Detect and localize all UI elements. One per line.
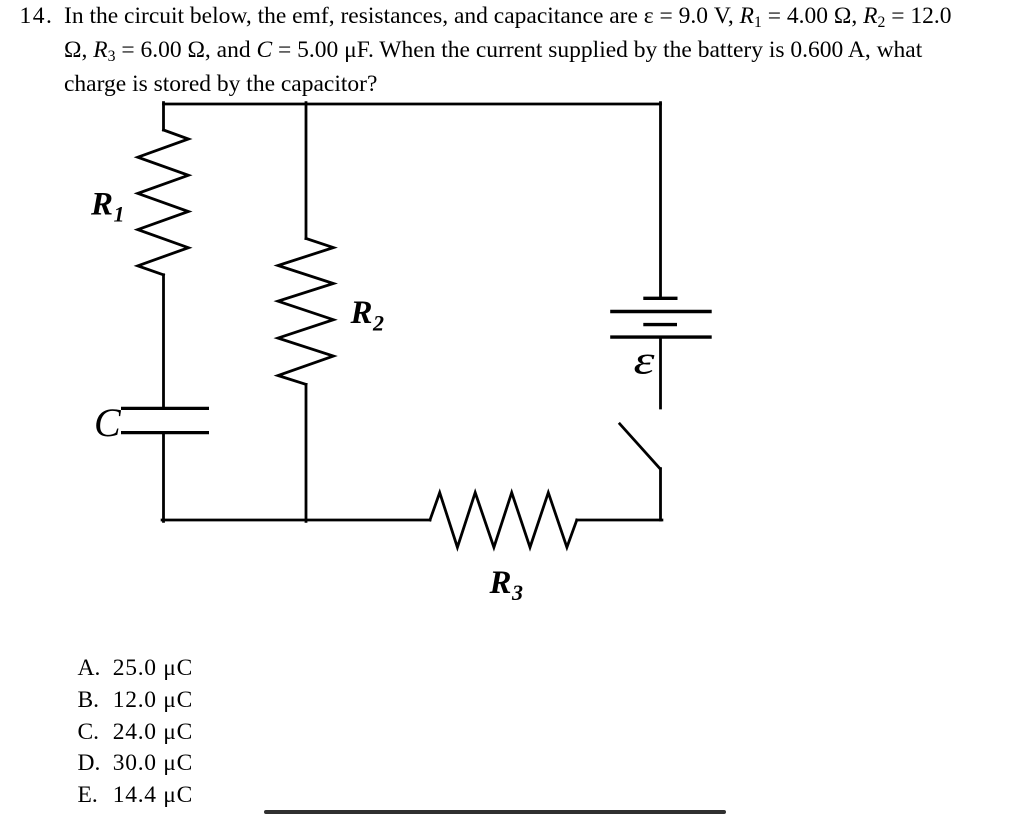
resistor R2 <box>278 239 333 385</box>
problem number <box>20 0 54 34</box>
wire left branch lower (C to bottom) <box>162 434 165 521</box>
battery cell short plate 2 <box>643 323 677 326</box>
battery cell long plate 2 <box>610 335 712 338</box>
capacitor C bottom plate <box>121 431 209 434</box>
resistor R3 <box>430 493 577 548</box>
svg-text:R: R <box>350 295 373 331</box>
resistor R1 <box>138 130 189 275</box>
wire middle branch lower <box>305 384 308 521</box>
svg-text:2: 2 <box>372 311 384 336</box>
wire bottom left segment <box>162 519 430 522</box>
wire middle branch upper <box>305 103 308 239</box>
problem statement text <box>64 0 951 102</box>
svg-text:3: 3 <box>511 580 523 605</box>
svg-text:1: 1 <box>114 202 125 227</box>
capacitor C top plate <box>121 407 209 410</box>
switch blade <box>620 424 660 469</box>
battery cell short plate 1 <box>643 297 677 300</box>
svg-text:R: R <box>489 565 512 601</box>
answer blank line <box>264 810 726 814</box>
wire left branch upper <box>162 103 165 130</box>
battery cell long plate 1 <box>610 310 712 313</box>
wire right branch upper <box>659 103 662 298</box>
wire left branch middle (R1 to C) <box>162 275 165 407</box>
wire right branch below battery <box>659 337 662 408</box>
wire right branch lower <box>659 469 662 520</box>
svg-text:ε: ε <box>634 338 655 383</box>
answer choices <box>78 653 101 812</box>
wire bottom right segment <box>577 519 662 522</box>
wire top horizontal <box>164 103 661 106</box>
svg-text:C: C <box>94 400 122 445</box>
svg-text:R: R <box>90 187 113 223</box>
